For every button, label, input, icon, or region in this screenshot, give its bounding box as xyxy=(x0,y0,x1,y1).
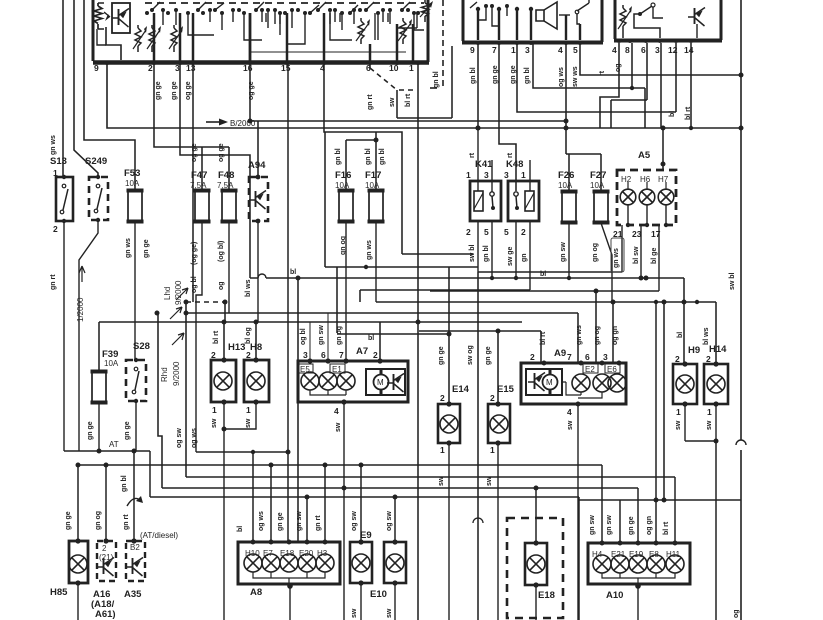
svg-text:bl: bl xyxy=(669,111,676,117)
svg-text:gn ge: gn ge xyxy=(628,516,635,535)
svg-text:gn sw: gn sw xyxy=(560,242,567,262)
svg-text:2: 2 xyxy=(521,227,526,237)
svg-text:E18: E18 xyxy=(280,549,295,558)
svg-text:10A: 10A xyxy=(558,181,573,190)
svg-text:E10: E10 xyxy=(370,589,387,600)
svg-text:gn sw: gn sw xyxy=(606,515,613,535)
svg-text:bl rt: bl rt xyxy=(213,330,220,344)
svg-text:9/2000: 9/2000 xyxy=(174,280,183,305)
svg-text:E9: E9 xyxy=(360,530,372,541)
svg-text:10A: 10A xyxy=(590,181,605,190)
svg-text:gn rt: gn rt xyxy=(123,514,130,530)
svg-text:6: 6 xyxy=(641,45,646,55)
svg-text:gn bl: gn bl xyxy=(335,148,342,165)
svg-text:og gn: og gn xyxy=(612,326,619,345)
svg-text:sw: sw xyxy=(706,420,713,430)
svg-text:og: og xyxy=(218,281,225,290)
svg-text:gn og: gn og xyxy=(340,236,347,255)
svg-text:gn ge: gn ge xyxy=(277,512,284,531)
svg-text:1: 1 xyxy=(676,407,681,417)
svg-text:bl og: bl og xyxy=(245,327,252,344)
svg-text:gn rt: gn rt xyxy=(367,94,374,110)
svg-text:gn ge: gn ge xyxy=(143,239,150,258)
svg-text:sw bl: sw bl xyxy=(729,272,736,290)
svg-text:13: 13 xyxy=(186,63,196,73)
svg-text:K48: K48 xyxy=(506,159,523,170)
svg-text:bl rt: bl rt xyxy=(663,521,670,535)
svg-text:gn ge: gn ge xyxy=(510,65,517,84)
svg-text:rt: rt xyxy=(599,70,606,76)
svg-text:sw bl: sw bl xyxy=(469,244,476,262)
svg-text:2: 2 xyxy=(530,352,535,362)
svg-text:2: 2 xyxy=(246,350,251,360)
svg-text:M: M xyxy=(377,378,384,387)
svg-text:bl: bl xyxy=(237,526,244,532)
svg-text:gn ge: gn ge xyxy=(65,511,72,530)
svg-text:(21): (21) xyxy=(99,553,114,562)
svg-text:S13: S13 xyxy=(50,156,67,167)
svg-text:sw ge: sw ge xyxy=(507,246,514,266)
svg-text:3: 3 xyxy=(303,350,308,360)
svg-text:16: 16 xyxy=(243,63,253,73)
svg-text:sw: sw xyxy=(389,97,396,107)
svg-text:gn bl: gn bl xyxy=(470,67,477,84)
svg-text:A35: A35 xyxy=(124,589,142,600)
svg-text:H11: H11 xyxy=(666,550,681,559)
svg-text:3: 3 xyxy=(603,352,608,362)
svg-text:10A: 10A xyxy=(125,179,140,188)
svg-text:1: 1 xyxy=(212,405,217,415)
svg-text:bl rt: bl rt xyxy=(540,331,547,345)
svg-text:gn og: gn og xyxy=(594,326,601,345)
svg-text:1: 1 xyxy=(466,170,471,180)
svg-text:gn rt: gn rt xyxy=(315,515,322,531)
svg-text:gn ge: gn ge xyxy=(171,81,178,100)
svg-text:A61): A61) xyxy=(95,609,116,620)
svg-text:K41: K41 xyxy=(475,159,493,170)
svg-text:og gn: og gn xyxy=(646,516,653,535)
svg-text:A94: A94 xyxy=(248,160,266,171)
svg-text:sw ws: sw ws xyxy=(572,66,579,87)
svg-text:og sw: og sw xyxy=(351,511,358,531)
svg-text:4: 4 xyxy=(558,45,563,55)
svg-text:4: 4 xyxy=(567,407,572,417)
svg-text:(og bl): (og bl) xyxy=(218,241,225,262)
svg-text:1: 1 xyxy=(53,168,58,178)
svg-text:gn bl: gn bl xyxy=(379,148,386,165)
svg-text:(AT/diesel): (AT/diesel) xyxy=(140,531,178,540)
svg-text:sw: sw xyxy=(335,422,342,432)
svg-text:sw: sw xyxy=(486,476,493,486)
svg-text:gn rt: gn rt xyxy=(50,274,57,290)
svg-text:3: 3 xyxy=(484,170,489,180)
svg-text:H6: H6 xyxy=(640,175,651,184)
svg-text:E19: E19 xyxy=(629,550,644,559)
svg-text:6: 6 xyxy=(585,352,590,362)
svg-text:F47: F47 xyxy=(191,170,207,181)
svg-text:2: 2 xyxy=(440,393,445,403)
svg-text:2: 2 xyxy=(102,544,107,553)
svg-text:gn ws: gn ws xyxy=(50,135,57,155)
svg-text:4: 4 xyxy=(334,406,339,416)
svg-text:gn ws: gn ws xyxy=(125,238,132,258)
svg-text:H7: H7 xyxy=(658,175,669,184)
svg-text:17: 17 xyxy=(651,229,661,239)
svg-text:1: 1 xyxy=(440,445,445,455)
svg-text:gn sw: gn sw xyxy=(296,511,303,531)
svg-text:bl rt: bl rt xyxy=(685,106,692,120)
svg-text:sw: sw xyxy=(211,418,218,428)
svg-text:14: 14 xyxy=(684,45,694,55)
svg-text:1/2000: 1/2000 xyxy=(76,297,85,322)
svg-text:F53: F53 xyxy=(124,168,140,179)
svg-text:2: 2 xyxy=(148,63,153,73)
svg-text:og: og xyxy=(733,609,740,618)
svg-text:og ws: og ws xyxy=(258,511,265,531)
svg-text:H4: H4 xyxy=(592,550,603,559)
svg-text:gn ge: gn ge xyxy=(155,81,162,100)
svg-text:3: 3 xyxy=(504,170,509,180)
svg-text:E1: E1 xyxy=(332,365,342,374)
svg-text:gn og: gn og xyxy=(95,511,102,530)
svg-text:5: 5 xyxy=(504,227,509,237)
svg-text:og ws: og ws xyxy=(558,67,565,87)
svg-text:gn ge: gn ge xyxy=(485,346,492,365)
svg-text:1: 1 xyxy=(521,170,526,180)
svg-text:gn: gn xyxy=(521,253,528,262)
svg-text:10A: 10A xyxy=(365,181,380,190)
svg-text:2: 2 xyxy=(490,393,495,403)
svg-text:A8: A8 xyxy=(250,587,262,598)
svg-text:E15: E15 xyxy=(497,384,515,395)
svg-text:E7: E7 xyxy=(263,549,273,558)
svg-text:B2: B2 xyxy=(130,543,140,552)
svg-text:bl ws: bl ws xyxy=(703,327,710,345)
svg-text:1: 1 xyxy=(409,63,414,73)
svg-text:og bl: og bl xyxy=(191,276,198,293)
svg-text:gn ge: gn ge xyxy=(87,421,94,440)
svg-text:bl: bl xyxy=(368,335,374,342)
svg-text:gn bl: gn bl xyxy=(121,475,128,492)
svg-text:H13: H13 xyxy=(228,342,245,353)
svg-text:9: 9 xyxy=(94,63,99,73)
svg-text:AT: AT xyxy=(109,440,119,449)
svg-text:E20: E20 xyxy=(299,549,314,558)
svg-text:A7: A7 xyxy=(356,346,368,357)
svg-text:7,5A: 7,5A xyxy=(190,181,207,190)
svg-text:10: 10 xyxy=(389,63,399,73)
svg-text:E21: E21 xyxy=(611,550,626,559)
svg-text:bl: bl xyxy=(677,332,684,338)
svg-text:og ge: og ge xyxy=(218,143,225,162)
svg-text:gn ge: gn ge xyxy=(492,65,499,84)
svg-text:S249: S249 xyxy=(85,156,107,167)
svg-text:A9: A9 xyxy=(554,348,566,359)
svg-text:E6: E6 xyxy=(607,365,617,374)
svg-text:A5: A5 xyxy=(638,150,651,161)
svg-text:og: og xyxy=(615,63,622,72)
svg-text:10A: 10A xyxy=(104,359,119,368)
svg-text:E5: E5 xyxy=(300,365,310,374)
svg-text:15: 15 xyxy=(281,63,291,73)
svg-text:2: 2 xyxy=(211,350,216,360)
svg-text:gn sw: gn sw xyxy=(318,325,325,345)
svg-text:gn bl: gn bl xyxy=(365,148,372,165)
svg-text:F48: F48 xyxy=(218,170,234,181)
svg-text:og ws: og ws xyxy=(191,428,198,448)
svg-text:gn og: gn og xyxy=(592,243,599,262)
svg-text:B/2000: B/2000 xyxy=(230,119,256,128)
svg-text:sw: sw xyxy=(675,420,682,430)
svg-text:8: 8 xyxy=(625,45,630,55)
svg-text:gn ws: gn ws xyxy=(576,325,583,345)
svg-text:7: 7 xyxy=(567,352,572,362)
svg-text:4: 4 xyxy=(612,45,617,55)
svg-text:gn bl: gn bl xyxy=(433,71,440,88)
svg-text:7: 7 xyxy=(492,45,497,55)
svg-text:gn ge: gn ge xyxy=(124,421,131,440)
svg-text:F27: F27 xyxy=(590,170,606,181)
svg-text:7: 7 xyxy=(339,350,344,360)
svg-text:(og ge): (og ge) xyxy=(191,242,198,265)
svg-text:og sw: og sw xyxy=(386,511,393,531)
svg-text:2: 2 xyxy=(706,354,711,364)
svg-text:S28: S28 xyxy=(133,341,150,352)
svg-text:rt: rt xyxy=(469,152,476,158)
svg-text:1: 1 xyxy=(511,45,516,55)
svg-text:og sw: og sw xyxy=(176,428,183,448)
svg-text:gn sw: gn sw xyxy=(589,515,596,535)
svg-text:gn bl: gn bl xyxy=(483,245,490,262)
svg-text:7,5A: 7,5A xyxy=(217,181,234,190)
svg-text:bl sw: bl sw xyxy=(633,246,640,264)
svg-text:F16: F16 xyxy=(335,170,351,181)
svg-text:23: 23 xyxy=(632,229,642,239)
svg-text:3: 3 xyxy=(525,45,530,55)
svg-text:Rhd: Rhd xyxy=(160,367,169,382)
svg-text:bl: bl xyxy=(540,271,546,278)
svg-text:1: 1 xyxy=(246,405,251,415)
svg-text:1: 1 xyxy=(490,445,495,455)
svg-text:E18: E18 xyxy=(538,590,555,601)
svg-text:sw: sw xyxy=(245,418,252,428)
svg-text:gn bl: gn bl xyxy=(524,67,531,84)
svg-text:F17: F17 xyxy=(365,170,381,181)
svg-text:9: 9 xyxy=(470,45,475,55)
svg-text:E8: E8 xyxy=(649,550,659,559)
svg-text:H2: H2 xyxy=(621,175,632,184)
svg-text:bl ge: bl ge xyxy=(651,248,658,264)
svg-text:sw: sw xyxy=(438,476,445,486)
svg-text:sw: sw xyxy=(351,608,358,618)
svg-text:1: 1 xyxy=(707,407,712,417)
svg-text:gn og: gn og xyxy=(336,326,343,345)
svg-text:gn ge: gn ge xyxy=(438,346,445,365)
svg-text:H9: H9 xyxy=(688,345,700,356)
svg-text:10A: 10A xyxy=(335,181,350,190)
svg-text:sw: sw xyxy=(386,608,393,618)
svg-text:F26: F26 xyxy=(558,170,574,181)
svg-text:H10: H10 xyxy=(245,549,260,558)
svg-text:bl rt: bl rt xyxy=(405,93,412,107)
svg-text:og ge: og ge xyxy=(191,143,198,162)
svg-text:A10: A10 xyxy=(606,590,623,601)
svg-text:sw og: sw og xyxy=(467,345,474,365)
svg-text:5: 5 xyxy=(484,227,489,237)
svg-text:2: 2 xyxy=(466,227,471,237)
svg-text:2: 2 xyxy=(373,350,378,360)
svg-text:sw: sw xyxy=(567,420,574,430)
svg-text:H85: H85 xyxy=(50,587,68,598)
svg-text:3: 3 xyxy=(655,45,660,55)
svg-text:5: 5 xyxy=(573,45,578,55)
svg-text:E14: E14 xyxy=(452,384,470,395)
svg-text:9/2000: 9/2000 xyxy=(172,361,181,386)
svg-text:bl: bl xyxy=(290,269,296,276)
svg-text:Lhd: Lhd xyxy=(163,287,172,300)
svg-text:H14: H14 xyxy=(709,344,727,355)
svg-text:rt: rt xyxy=(507,152,514,158)
svg-text:M: M xyxy=(546,378,553,387)
svg-text:6: 6 xyxy=(321,350,326,360)
svg-text:2: 2 xyxy=(53,224,58,234)
svg-text:gn ws: gn ws xyxy=(366,240,373,260)
svg-text:E2: E2 xyxy=(585,365,595,374)
svg-text:gn ws: gn ws xyxy=(613,248,620,268)
svg-text:og ge: og ge xyxy=(185,81,192,100)
svg-text:2: 2 xyxy=(675,354,680,364)
svg-text:bl ws: bl ws xyxy=(245,279,252,297)
svg-text:H3: H3 xyxy=(317,549,328,558)
svg-text:og bl: og bl xyxy=(300,328,307,345)
svg-text:og ge: og ge xyxy=(248,81,255,100)
